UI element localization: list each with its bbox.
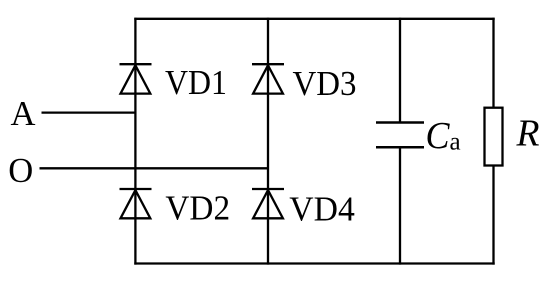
svg-text:VD2: VD2 bbox=[165, 189, 230, 228]
wire bottom rail bbox=[134, 262, 494, 264]
wire resistor branch top bbox=[492, 18, 494, 109]
wire middle branch vertical bbox=[267, 18, 269, 265]
capacitor Ca plates bbox=[376, 123, 424, 148]
svg-text:A: A bbox=[11, 94, 37, 133]
diode VD3 bbox=[252, 64, 284, 93]
wire left branch vertical bbox=[134, 18, 136, 265]
svg-text:VD1: VD1 bbox=[165, 63, 227, 102]
diode VD2 bbox=[120, 189, 152, 218]
wire top rail bbox=[134, 18, 494, 20]
diode VD4 bbox=[252, 189, 284, 218]
svg-text:R: R bbox=[516, 112, 540, 154]
wire input O bbox=[40, 167, 269, 169]
svg-text:VD3: VD3 bbox=[293, 64, 357, 103]
wire capacitor branch top bbox=[399, 18, 401, 123]
resistor R bbox=[485, 108, 503, 166]
wire input A bbox=[42, 111, 136, 113]
svg-text:O: O bbox=[8, 151, 33, 190]
svg-text:C: C bbox=[426, 115, 451, 157]
svg-text:a: a bbox=[450, 129, 461, 156]
diode VD1 bbox=[120, 64, 152, 93]
wire resistor branch bottom bbox=[492, 165, 494, 265]
label Ca bbox=[426, 115, 461, 157]
wire capacitor branch bottom bbox=[399, 147, 401, 264]
svg-text:VD4: VD4 bbox=[289, 189, 355, 228]
